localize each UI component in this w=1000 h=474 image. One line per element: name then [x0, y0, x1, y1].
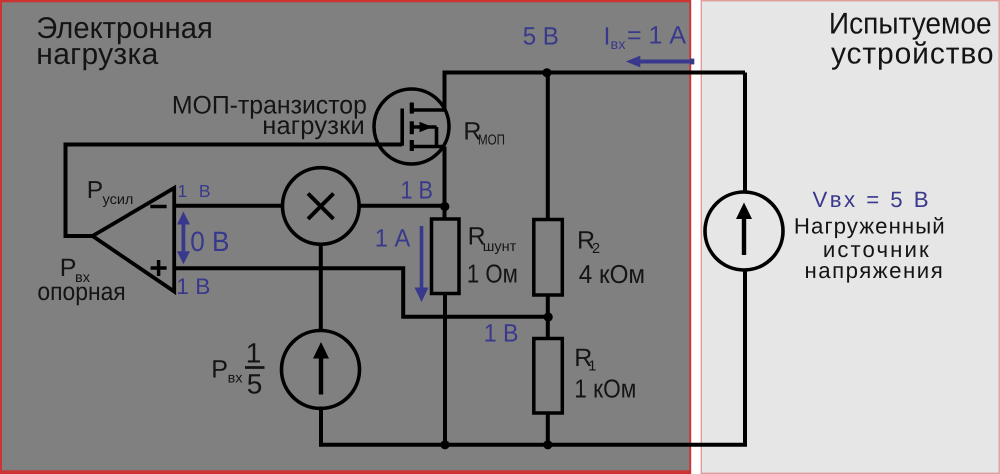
op-amp U1 triangle	[93, 188, 175, 292]
wire: op-amp output to MOSFET gate	[66, 145, 403, 237]
source: DUT arrow up	[742, 217, 746, 255]
svg-text:1 В: 1 В	[484, 320, 519, 348]
svg-text:шунт: шунт	[483, 239, 517, 255]
annotation arrow: 0V between op-amp inputs (double headed, blue)	[177, 212, 190, 265]
svg-text:опорная: опорная	[37, 278, 125, 306]
node: junction dot shunt at bottom rail	[440, 440, 449, 449]
node: junction dot R1 at bottom rail	[543, 440, 552, 449]
transistor: load MOSFET body	[374, 89, 449, 164]
label: title Электронная нагрузка	[36, 12, 213, 71]
wire: R2 top to 5V rail	[546, 73, 550, 220]
svg-text:1 кОм: 1 кОм	[574, 374, 636, 404]
current source arrow up	[319, 356, 323, 395]
svg-text:МОП: МОП	[478, 133, 505, 149]
panel: electronic load (gray)	[0, 0, 691, 474]
svg-text:1 В: 1 В	[178, 181, 211, 201]
wire: R1 bottom to bottom rail	[546, 413, 550, 445]
svg-text:5: 5	[247, 369, 263, 400]
svg-text:Vвх = 5 В: Vвх = 5 В	[813, 187, 929, 212]
svg-text:усил: усил	[103, 192, 134, 208]
label: Ivx = 1A input current	[604, 21, 687, 53]
wire: multiplier output to shunt top node	[358, 204, 445, 208]
resistor Rshunt body	[432, 219, 460, 294]
node: junction dot 5V rail at R2	[542, 68, 551, 77]
wire: right current source bottom to bottom rail	[319, 270, 745, 445]
svg-text:1 Ом: 1 Ом	[467, 259, 518, 289]
svg-text:Нагруженный: Нагруженный	[794, 214, 945, 239]
wire: right branch down to current source top	[743, 73, 747, 194]
transistor: MOSFET body arrow	[420, 122, 433, 132]
source: DUT loaded voltage source circle	[705, 192, 783, 270]
op-amp plus pin symbol	[151, 260, 167, 276]
current source (controlled, 1/5) circle	[282, 331, 360, 409]
label: Нагруженный источник напряжения	[794, 214, 945, 283]
label: fraction bar of 1/5	[245, 366, 265, 369]
wire: left current source bottom to bottom rail	[319, 407, 323, 445]
svg-text:напряжения: напряжения	[804, 258, 942, 283]
label: R2 designator and value	[577, 227, 645, 289]
wire: MOSFET source lead down through 1V node to shunt resistor	[443, 147, 447, 220]
wire: shunt resistor bottom to bottom rail	[443, 294, 447, 445]
svg-text:1: 1	[588, 359, 596, 375]
label: P_usil (op-amp gain)	[87, 177, 134, 208]
svg-text:0 В: 0 В	[190, 226, 229, 257]
svg-text:1 А: 1 А	[375, 224, 411, 252]
svg-text:нагрузка: нагрузка	[36, 38, 158, 71]
svg-text:4 кОм: 4 кОм	[579, 259, 645, 289]
svg-text:1: 1	[246, 338, 262, 369]
panel: device under test (light)	[701, 1, 999, 474]
label: Rshunt designator	[467, 223, 518, 289]
resistor R2 body	[534, 220, 563, 296]
wire: op-amp inverting input to multiplier left	[174, 204, 284, 208]
svg-text:I: I	[604, 22, 611, 50]
svg-text:1 В: 1 В	[176, 274, 210, 299]
label: P_vx 1/5 (current source scale)	[211, 338, 262, 400]
resistor R1 body	[534, 339, 563, 414]
svg-text:Испытуемое: Испытуемое	[829, 7, 992, 40]
svg-text:2: 2	[592, 241, 600, 257]
annotation arrow: Ivx current into load (blue, pointing left)	[626, 56, 695, 68]
wire: op-amp non-inverting input feedback path	[174, 268, 548, 317]
multiplier block (X circle)	[283, 168, 360, 245]
label: МОП-транзистор нагрузки	[172, 92, 367, 140]
svg-text:= 1 А: = 1 А	[627, 21, 686, 49]
label: R1 designator and value	[574, 344, 636, 404]
op-amp minus pin symbol	[150, 205, 166, 209]
label: title Испытуемое устройство	[829, 7, 994, 70]
label: R_MOP value	[463, 118, 505, 149]
svg-text:5 В: 5 В	[523, 23, 559, 51]
svg-text:вх: вх	[611, 37, 627, 53]
svg-text:нагрузки: нагрузки	[262, 112, 365, 140]
label: P_vx опорная (reference input)	[37, 254, 125, 306]
wire: top rail 5V node from MOSFET drain to right branch	[445, 73, 746, 111]
svg-text:Р: Р	[211, 356, 228, 384]
svg-text:Р: Р	[87, 177, 103, 204]
wire: multiplier bottom to left current source top	[319, 244, 323, 332]
node: junction dot divider 1V between R2 and R1	[544, 312, 553, 321]
svg-text:1 В: 1 В	[401, 176, 434, 204]
wire: R2 bottom to divider node	[546, 295, 550, 339]
svg-text:вх: вх	[228, 371, 244, 387]
annotation arrow: 1A down through shunt (blue)	[415, 226, 429, 302]
node: junction dot 1V at shunt top	[440, 202, 449, 211]
svg-text:устройство: устройство	[831, 38, 994, 71]
